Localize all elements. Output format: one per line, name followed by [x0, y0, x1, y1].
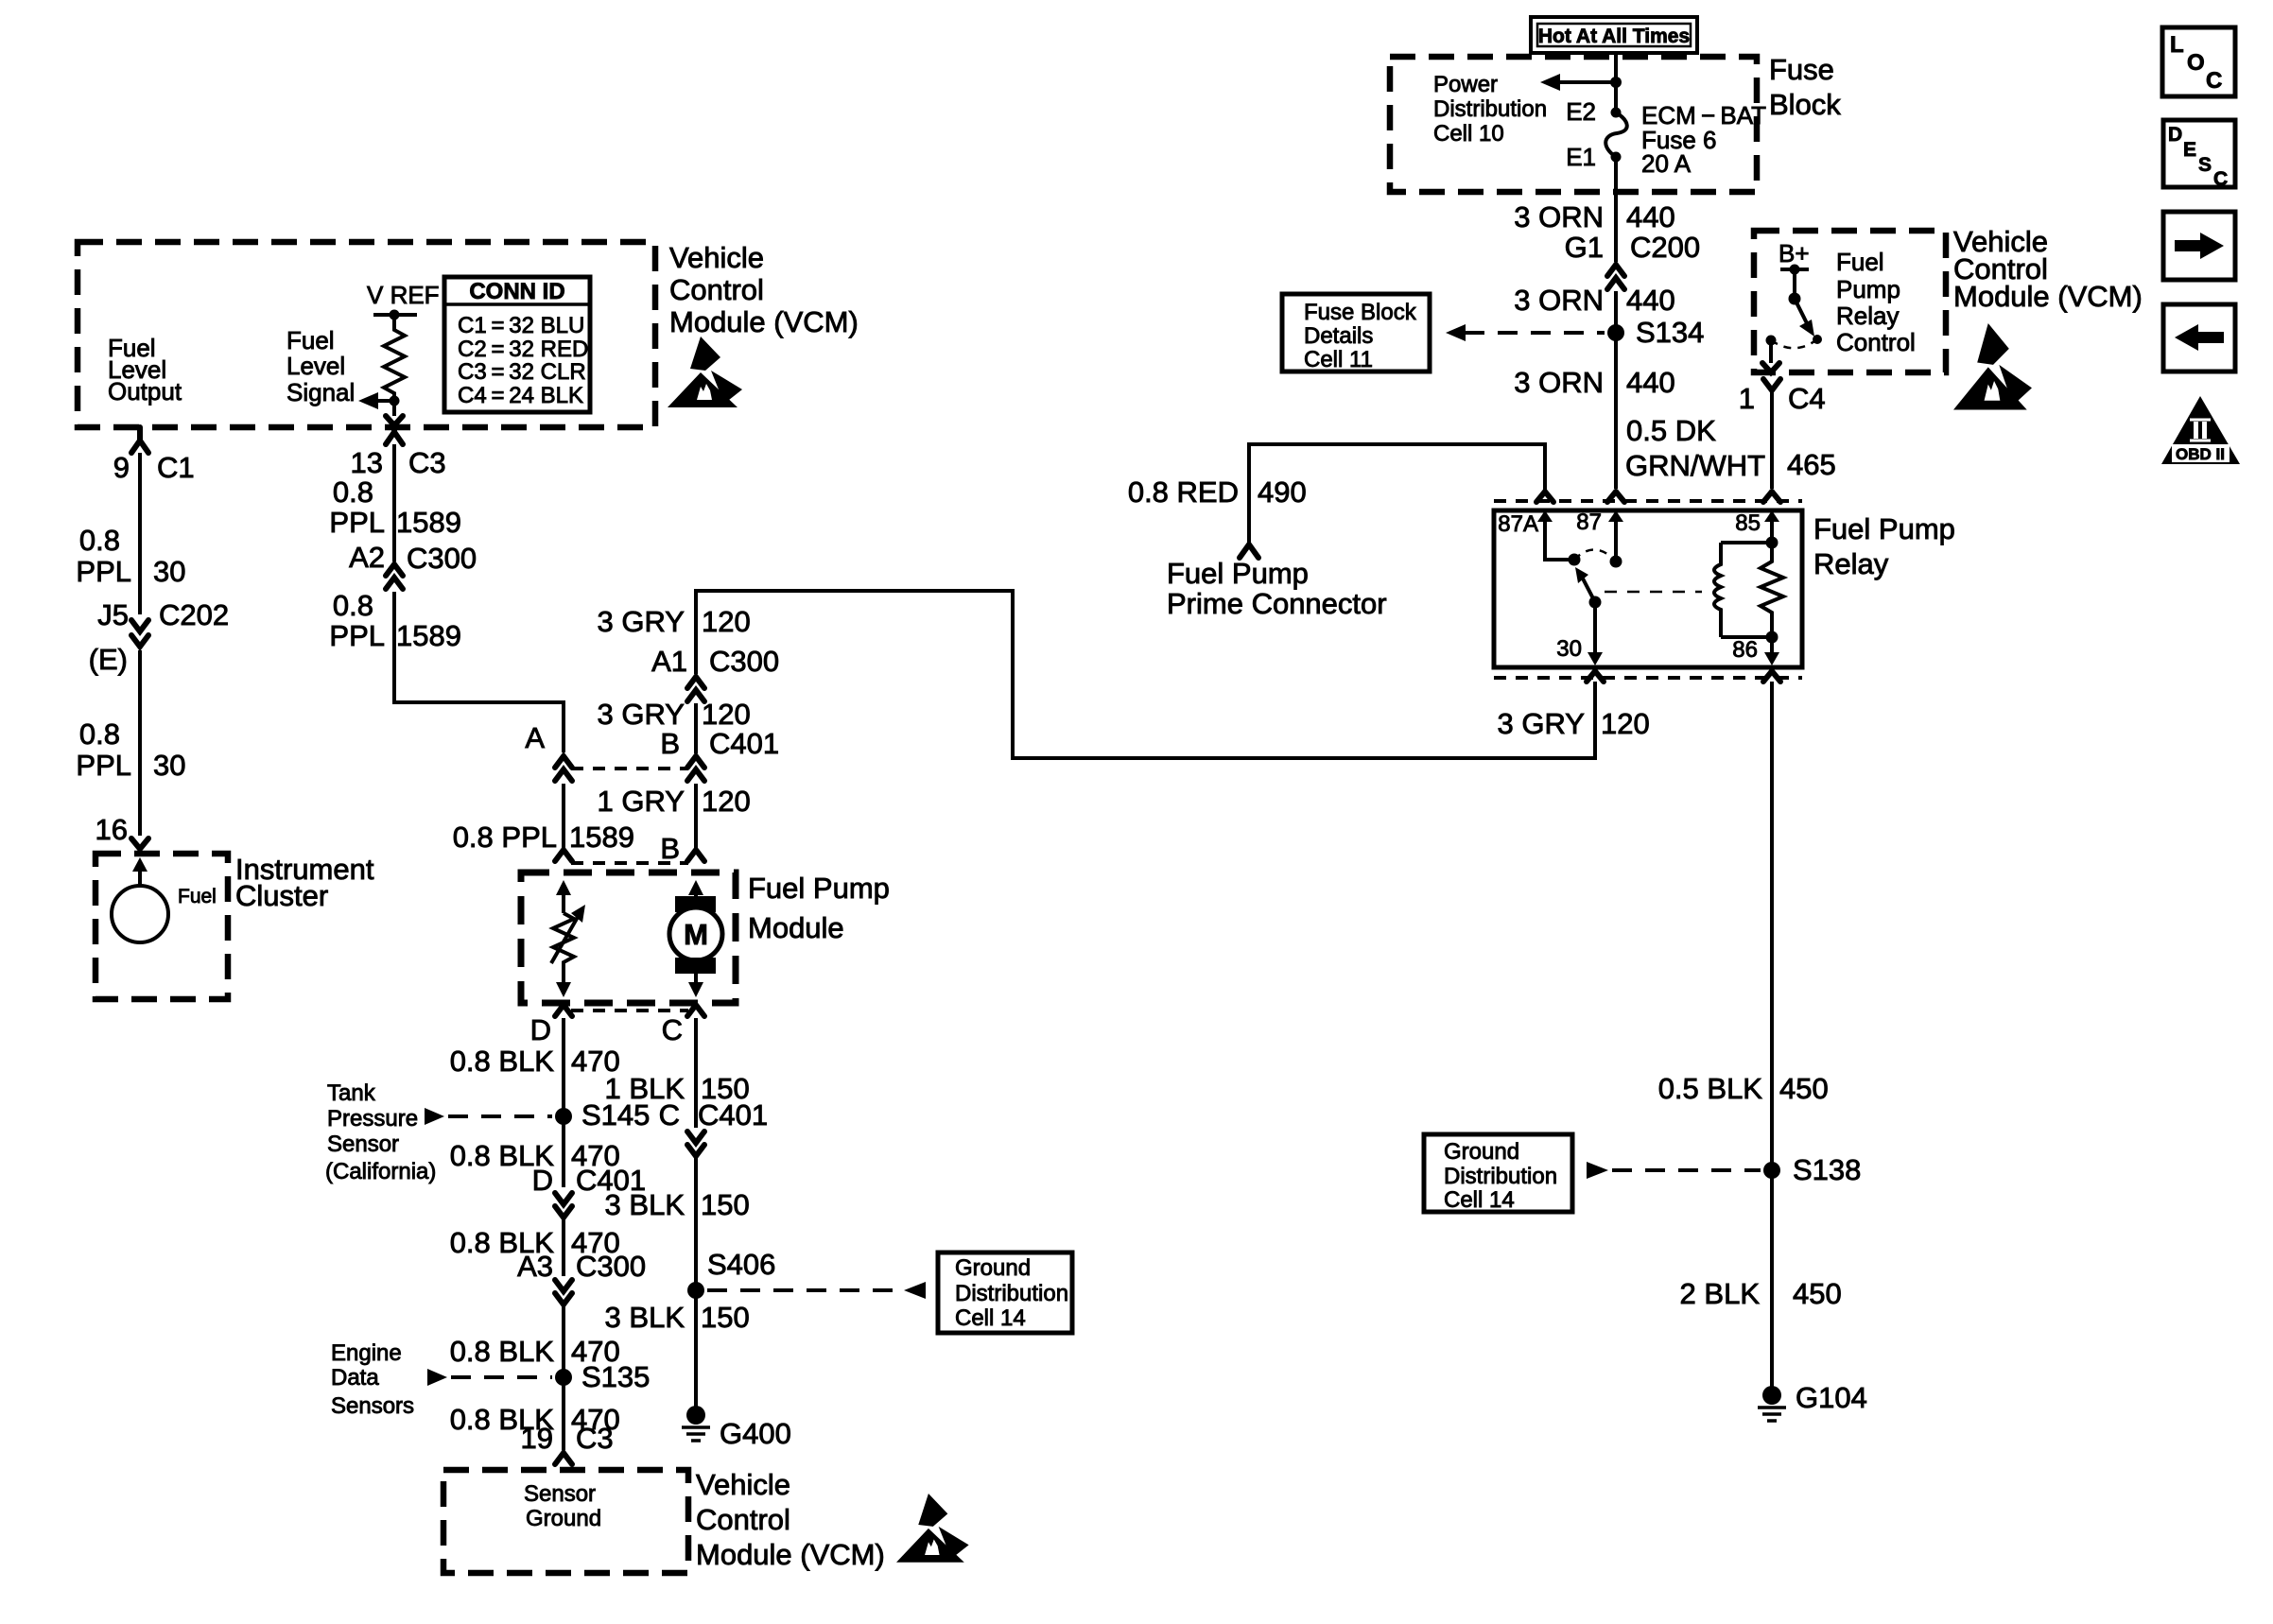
- svg-text:Relay: Relay: [1836, 302, 1899, 330]
- svg-text:(E): (E): [89, 643, 128, 676]
- arrow + dashed reference to S138: [1587, 1162, 1608, 1179]
- splice S145: [555, 1108, 572, 1125]
- svg-text:Ground: Ground: [955, 1255, 1031, 1281]
- wire GRY 120 into module pin B: [694, 784, 698, 848]
- wire PPL 1589 lower + jog right: [394, 592, 564, 752]
- svg-text:S138: S138: [1793, 1153, 1861, 1186]
- label ECM-BAT Fuse 6 20 A: [1641, 101, 1766, 178]
- relay bottom connector dashed body: [1494, 676, 1802, 680]
- label Power Distribution Cell 10: [1433, 72, 1547, 147]
- svg-text:C1 = 32 BLU: C1 = 32 BLU: [458, 313, 584, 338]
- svg-text:C: C: [2206, 68, 2222, 94]
- label: Vehicle Control Module (VCM) top-left: [669, 241, 859, 338]
- LOC box: [2162, 27, 2235, 96]
- wire PPL 30 upper: [138, 453, 142, 614]
- svg-text:Distribution: Distribution: [1433, 96, 1547, 122]
- sender arrow up: [562, 890, 565, 913]
- svg-text:C401: C401: [698, 1098, 768, 1132]
- pin arrow into cluster: [138, 866, 142, 886]
- svg-text:C1: C1: [157, 451, 195, 484]
- svg-text:3 BLK: 3 BLK: [605, 1301, 685, 1334]
- svg-text:E2: E2: [1566, 97, 1596, 126]
- svg-text:Pump: Pump: [1836, 275, 1900, 303]
- pin 86 arrow: [1770, 637, 1774, 654]
- svg-text:Cell 14: Cell 14: [955, 1305, 1026, 1331]
- svg-text:C300: C300: [407, 542, 477, 575]
- svg-text:C: C: [659, 1098, 680, 1132]
- svg-text:3 BLK: 3 BLK: [605, 1188, 685, 1221]
- svg-text:Fuse: Fuse: [1769, 53, 1834, 86]
- svg-text:Module (VCM): Module (VCM): [1953, 280, 2143, 313]
- svg-text:Module (VCM): Module (VCM): [696, 1538, 885, 1571]
- svg-text:OBD II: OBD II: [2176, 445, 2225, 463]
- svg-text:PPL: PPL: [329, 619, 385, 652]
- svg-text:30: 30: [1556, 636, 1582, 662]
- pin 87A arrow: [1543, 520, 1547, 537]
- svg-text:C300: C300: [576, 1250, 646, 1283]
- svg-text:13: 13: [351, 446, 383, 479]
- relay coil: [1714, 543, 1721, 637]
- svg-text:Block: Block: [1769, 88, 1841, 121]
- svg-text:150: 150: [701, 1301, 750, 1334]
- svg-text:Distribution: Distribution: [955, 1281, 1068, 1306]
- svg-text:490: 490: [1258, 475, 1307, 509]
- left arrow box: [2163, 304, 2235, 371]
- svg-text:Engine: Engine: [331, 1340, 402, 1366]
- fuse block details cell 11 box: [1282, 294, 1430, 371]
- svg-text:450: 450: [1779, 1072, 1829, 1105]
- wire GRY 120: [694, 703, 698, 753]
- svg-text:Fuel Pump: Fuel Pump: [748, 872, 890, 905]
- dashed reference to ground distribution: [707, 1288, 900, 1292]
- actuation dashed link: [1605, 591, 1702, 594]
- wire PPL 30 lower: [138, 650, 142, 836]
- relay connector chevrons 87A 87 85: [1536, 492, 1553, 502]
- wire to box edge with chevron: [392, 401, 396, 416]
- svg-text:465: 465: [1787, 448, 1836, 481]
- svg-text:D: D: [2168, 124, 2182, 146]
- svg-text:0.8: 0.8: [333, 475, 373, 509]
- motor arrow up: [694, 890, 698, 896]
- svg-text:Ground: Ground: [526, 1506, 601, 1531]
- svg-text:C: C: [662, 1013, 683, 1046]
- svg-text:CONN ID: CONN ID: [469, 279, 564, 304]
- relay resistor: [1761, 543, 1783, 637]
- svg-text:C: C: [2213, 168, 2228, 190]
- wire BLK 470: [562, 1018, 565, 1187]
- OBD II triangle: [2161, 396, 2240, 464]
- svg-text:120: 120: [702, 605, 751, 638]
- svg-text:Sensors: Sensors: [331, 1393, 414, 1419]
- wire BLK 150: [694, 1018, 698, 1128]
- wire BLK 470: [562, 1306, 565, 1450]
- ground G400: [686, 1406, 705, 1425]
- svg-text:30: 30: [153, 555, 185, 588]
- wire into module pin A: [562, 784, 565, 848]
- svg-text:Fuel Pump: Fuel Pump: [1167, 557, 1309, 590]
- svg-text:Hot At All Times: Hot At All Times: [1538, 26, 1690, 47]
- svg-text:440: 440: [1626, 200, 1675, 233]
- svg-text:C4: C4: [1788, 382, 1826, 415]
- svg-text:1589: 1589: [396, 506, 461, 539]
- svg-text:Ground: Ground: [1444, 1139, 1519, 1165]
- svg-text:1 GRY: 1 GRY: [598, 785, 685, 818]
- svg-text:Details: Details: [1304, 323, 1373, 349]
- relay top connector dashed body: [1494, 499, 1802, 503]
- svg-text:0.8 BLK: 0.8 BLK: [450, 1335, 555, 1368]
- CONN ID table: [444, 277, 590, 412]
- svg-text:A1: A1: [651, 645, 687, 678]
- svg-text:B: B: [660, 832, 680, 865]
- svg-text:Sensor: Sensor: [524, 1481, 596, 1507]
- svg-text:C3: C3: [408, 446, 446, 479]
- 87A contact: [1545, 537, 1570, 560]
- svg-text:1: 1: [1739, 382, 1755, 415]
- sender diagonal arrow: [551, 917, 578, 963]
- svg-text:Cluster: Cluster: [235, 879, 328, 912]
- connector C202 (J5) double chevron: [131, 620, 148, 631]
- wire PPL 1589: [392, 444, 396, 561]
- coil top/bottom ties: [1721, 543, 1772, 637]
- svg-text:Cell 11: Cell 11: [1304, 347, 1373, 372]
- svg-text:440: 440: [1626, 284, 1675, 317]
- svg-text:Fuel Pump: Fuel Pump: [1813, 512, 1955, 545]
- svg-text:M: M: [684, 918, 708, 951]
- svg-text:87: 87: [1576, 510, 1602, 535]
- svg-text:V REF: V REF: [367, 281, 440, 309]
- svg-text:Control: Control: [696, 1503, 790, 1536]
- svg-text:120: 120: [702, 785, 751, 818]
- wire ORN 440: [1614, 157, 1618, 262]
- connector C3 (VCM exit): [386, 427, 403, 444]
- svg-text:C401: C401: [709, 727, 779, 760]
- svg-text:S134: S134: [1636, 316, 1704, 349]
- connector pin 16 chevron: [131, 838, 148, 849]
- label Vehicle Control Module (VCM) right: [1953, 225, 2143, 313]
- switch throw dashed arc: [1574, 549, 1616, 561]
- svg-text:C300: C300: [709, 645, 779, 678]
- wire BLK 150: [694, 1158, 698, 1415]
- svg-text:Level: Level: [286, 352, 345, 380]
- svg-text:D: D: [530, 1013, 551, 1046]
- svg-text:Fuel: Fuel: [1836, 248, 1884, 276]
- svg-text:3 ORN: 3 ORN: [1514, 284, 1604, 317]
- svg-text:Cell 10: Cell 10: [1433, 121, 1504, 147]
- svg-text:Signal: Signal: [286, 378, 355, 406]
- svg-text:Relay: Relay: [1813, 547, 1889, 580]
- svg-text:Pressure: Pressure: [327, 1106, 418, 1132]
- svg-text:Tank: Tank: [327, 1080, 376, 1106]
- fuse element (ECM-BAT fuse 6): [1611, 108, 1622, 118]
- svg-text:Module: Module: [748, 911, 844, 944]
- svg-text:2 BLK: 2 BLK: [1680, 1277, 1761, 1310]
- svg-text:PPL: PPL: [76, 749, 131, 782]
- pin 30 wire + arrow: [1593, 602, 1597, 654]
- svg-text:G104: G104: [1796, 1381, 1867, 1414]
- svg-text:A3: A3: [517, 1250, 553, 1283]
- svg-text:S406: S406: [707, 1248, 775, 1281]
- label: Fuel Level Signal: [286, 326, 355, 406]
- splice S138: [1763, 1162, 1780, 1179]
- svg-text:S135: S135: [581, 1360, 650, 1393]
- sensor ground dashed box: [443, 1470, 688, 1573]
- svg-text:C4 = 24 BLK: C4 = 24 BLK: [458, 383, 583, 408]
- svg-text:Module (VCM): Module (VCM): [669, 305, 859, 338]
- fuel pump prime connector: [1240, 544, 1258, 558]
- motor M (fuel pump): [675, 896, 716, 912]
- svg-text:86: 86: [1732, 637, 1758, 663]
- module bottom connector dashed body: [571, 1009, 688, 1012]
- VCM (right) dashed box: [1754, 231, 1946, 372]
- svg-text:9: 9: [113, 451, 130, 484]
- connector C401 dashed body: [571, 767, 688, 770]
- svg-text:16: 16: [95, 813, 128, 846]
- wire GRY 120 jog: [696, 591, 1595, 758]
- B+ node: [1780, 268, 1809, 271]
- connector C4 pin 1: [1763, 379, 1780, 390]
- svg-text:Vehicle: Vehicle: [669, 241, 764, 274]
- svg-text:3 ORN: 3 ORN: [1514, 366, 1604, 399]
- svg-text:120: 120: [1601, 707, 1650, 740]
- svg-text:C2 = 32 RED: C2 = 32 RED: [458, 337, 588, 362]
- svg-text:E1: E1: [1566, 143, 1596, 171]
- splice S406: [687, 1282, 704, 1299]
- svg-text:440: 440: [1626, 366, 1675, 399]
- svg-text:C3: C3: [576, 1422, 614, 1455]
- svg-text:Sensor: Sensor: [327, 1132, 399, 1157]
- arrow to S135: [427, 1369, 447, 1386]
- label Vehicle Control Module (VCM) bottom: [696, 1468, 885, 1571]
- VCM (top-left) dashed box: [78, 242, 655, 427]
- svg-text:Data: Data: [331, 1365, 379, 1391]
- ground distribution cell 14 box (right): [1424, 1134, 1572, 1212]
- driver switch blade: [1795, 299, 1809, 327]
- svg-text:450: 450: [1793, 1277, 1842, 1310]
- svg-text:Cell 14: Cell 14: [1444, 1187, 1515, 1213]
- pin 85 arrow: [1770, 520, 1774, 543]
- wire DK GRN/WHT 465: [1770, 390, 1774, 489]
- svg-text:Prime Connector: Prime Connector: [1167, 587, 1387, 620]
- svg-text:Fuse Block: Fuse Block: [1304, 300, 1417, 325]
- svg-text:Control: Control: [1836, 328, 1916, 356]
- fuel pump module dashed box: [521, 872, 736, 1003]
- DESC box: [2163, 120, 2235, 187]
- ESD symbol (bottom VCM): [896, 1494, 969, 1563]
- svg-text:Vehicle: Vehicle: [696, 1468, 790, 1501]
- ESD symbol (right VCM): [1953, 323, 2032, 410]
- 87 contact: [1614, 537, 1618, 556]
- fuel gauge circle: [112, 886, 168, 942]
- switch throw dashed arc: [1771, 339, 1817, 348]
- svg-text:0.8 RED: 0.8 RED: [1128, 475, 1239, 509]
- wire BLK 470: [562, 1219, 565, 1276]
- svg-text:87A: 87A: [1498, 511, 1538, 537]
- wire ORN 440: [1614, 291, 1618, 489]
- svg-text:A: A: [525, 721, 545, 754]
- wire to box edge: [1769, 340, 1773, 363]
- hot at all times box: [1531, 17, 1697, 53]
- wire RED 490: [1249, 444, 1545, 544]
- resistor (fuel level pull-up): [384, 315, 405, 401]
- svg-text:Control: Control: [669, 273, 764, 306]
- svg-text:L: L: [2170, 32, 2184, 58]
- label: Fuel Level Output: [108, 334, 182, 406]
- svg-text:Distribution: Distribution: [1444, 1164, 1557, 1189]
- svg-text:J5: J5: [97, 598, 129, 631]
- svg-text:20 A: 20 A: [1641, 149, 1692, 178]
- svg-text:0.5 BLK: 0.5 BLK: [1658, 1072, 1763, 1105]
- relay bottom connector chevrons: [1587, 671, 1604, 682]
- svg-text:A2: A2: [349, 541, 385, 574]
- svg-text:C200: C200: [1630, 231, 1700, 264]
- right arrow box: [2163, 212, 2235, 280]
- svg-text:Output: Output: [108, 377, 182, 406]
- svg-text:GRN/WHT: GRN/WHT: [1625, 449, 1765, 482]
- svg-text:G1: G1: [1565, 231, 1604, 264]
- dashed reference to fuse block details: [1465, 331, 1605, 335]
- ground distribution cell 14 box: [938, 1253, 1072, 1333]
- junction dot + power distribution arrow: [1610, 77, 1622, 88]
- svg-text:85: 85: [1735, 510, 1761, 536]
- svg-text:D: D: [532, 1164, 553, 1197]
- svg-text:0.8: 0.8: [333, 589, 373, 622]
- svg-text:19: 19: [521, 1422, 553, 1455]
- svg-text:3 ORN: 3 ORN: [1514, 200, 1604, 233]
- svg-text:3 GRY: 3 GRY: [598, 698, 685, 731]
- junction dot + signal arrow (left): [390, 396, 400, 406]
- connector pin 19 chevron: [555, 1453, 572, 1464]
- label Engine Data Sensors: [331, 1340, 414, 1419]
- ground G104: [1762, 1386, 1781, 1405]
- svg-text:S: S: [2198, 154, 2212, 176]
- ESD symbol (top-left VCM): [668, 337, 742, 407]
- fuel pump module connector chevrons: [555, 850, 572, 861]
- svg-text:B: B: [660, 727, 680, 760]
- pin 87 arrow: [1614, 520, 1618, 537]
- svg-text:1589: 1589: [396, 619, 461, 652]
- wire from hot box: [1614, 53, 1618, 113]
- label Fuel Pump Relay Control: [1836, 248, 1916, 356]
- motor arrow down: [694, 974, 698, 985]
- node V REF bar: [373, 313, 417, 317]
- connector C1 (VCM exit): [131, 427, 148, 453]
- splice S135: [555, 1369, 572, 1386]
- svg-text:B+: B+: [1778, 239, 1810, 268]
- svg-text:120: 120: [702, 698, 751, 731]
- module connector dashed body: [571, 861, 688, 865]
- splice S134: [1607, 324, 1624, 341]
- connector C401 pin A chevrons: [555, 756, 572, 768]
- svg-text:1589: 1589: [569, 821, 634, 854]
- svg-text:PPL: PPL: [329, 506, 385, 539]
- fuel pump relay box: [1494, 510, 1802, 667]
- svg-text:(California): (California): [325, 1159, 436, 1184]
- svg-text:150: 150: [701, 1188, 750, 1221]
- module bottom connector chevrons: [555, 1005, 572, 1016]
- svg-text:0.8: 0.8: [79, 717, 120, 751]
- svg-text:Fuel: Fuel: [286, 326, 335, 354]
- sender arrow down: [562, 966, 565, 985]
- svg-text:G400: G400: [720, 1417, 791, 1450]
- svg-text:0.5 DK: 0.5 DK: [1626, 414, 1716, 447]
- wire BLK 450: [1770, 682, 1774, 1395]
- svg-text:0.8 BLK: 0.8 BLK: [450, 1045, 555, 1078]
- svg-text:C202: C202: [159, 598, 229, 631]
- instrument cluster dashed box: [95, 854, 228, 999]
- svg-text:C3 = 32 CLR: C3 = 32 CLR: [458, 359, 586, 385]
- svg-text:0.8: 0.8: [79, 524, 120, 557]
- fuse block dashed box: [1390, 57, 1757, 192]
- svg-text:Power: Power: [1433, 72, 1498, 97]
- svg-text:30: 30: [153, 749, 185, 782]
- relay movable blade: [1589, 596, 1602, 609]
- svg-text:3 GRY: 3 GRY: [598, 605, 685, 638]
- variable resistor (fuel level sender): [553, 913, 574, 966]
- svg-text:PPL: PPL: [76, 555, 131, 588]
- svg-text:E: E: [2183, 139, 2196, 161]
- label Tank Pressure Sensor (California): [325, 1080, 436, 1184]
- svg-text:0.8 PPL: 0.8 PPL: [453, 821, 557, 854]
- svg-text:Fuel: Fuel: [178, 886, 217, 907]
- svg-text:3 GRY: 3 GRY: [1498, 707, 1585, 740]
- arrow to S145: [425, 1108, 444, 1125]
- svg-text:O: O: [2187, 50, 2205, 76]
- connector C300 (A2) double chevron up: [386, 564, 403, 576]
